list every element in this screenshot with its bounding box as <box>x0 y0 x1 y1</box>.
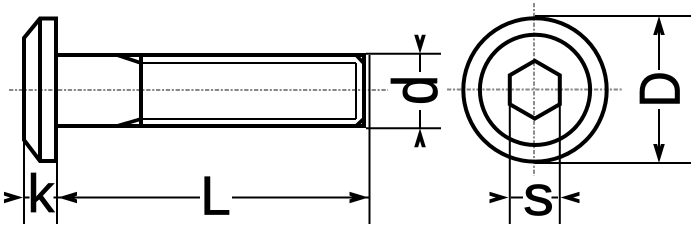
svg-text:k: k <box>28 164 56 224</box>
svg-text:s: s <box>523 163 554 227</box>
svg-text:L: L <box>200 165 231 227</box>
svg-text:D: D <box>628 71 692 107</box>
svg-text:d: d <box>381 75 451 105</box>
